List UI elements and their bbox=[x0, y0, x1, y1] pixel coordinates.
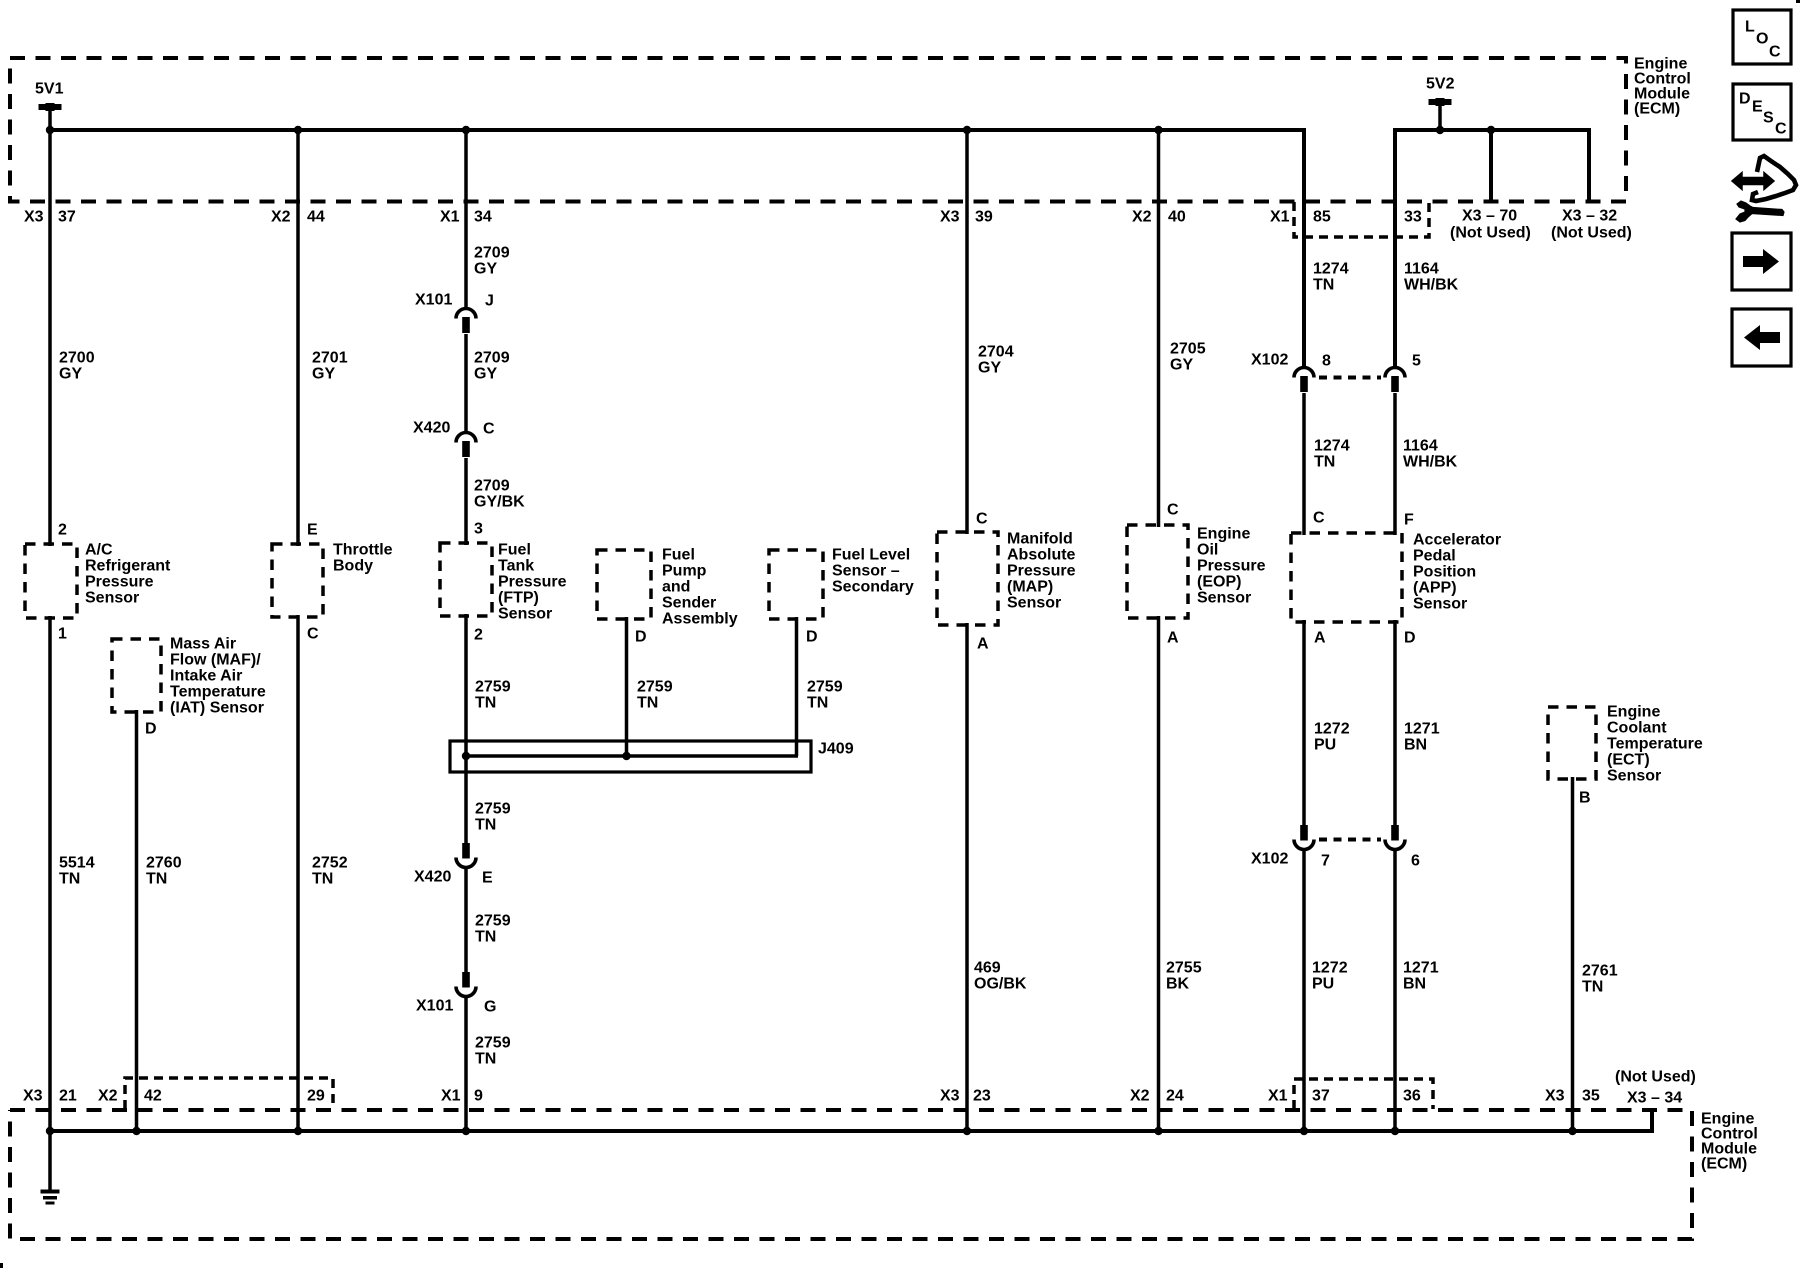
svg-text:Absolute: Absolute bbox=[1007, 547, 1076, 564]
svg-text:(Not Used): (Not Used) bbox=[1450, 225, 1531, 242]
svg-text:23: 23 bbox=[973, 1088, 991, 1105]
svg-text:42: 42 bbox=[144, 1088, 162, 1105]
svg-text:X1: X1 bbox=[1268, 1088, 1288, 1105]
svg-text:3: 3 bbox=[474, 521, 483, 538]
svg-text:40: 40 bbox=[1168, 209, 1186, 226]
svg-text:Assembly: Assembly bbox=[662, 611, 738, 628]
svg-text:2709: 2709 bbox=[474, 245, 510, 262]
svg-text:39: 39 bbox=[975, 209, 993, 226]
svg-text:Refrigerant: Refrigerant bbox=[85, 558, 171, 575]
svg-text:X101: X101 bbox=[415, 292, 452, 309]
svg-text:C: C bbox=[307, 626, 319, 643]
svg-text:(ECM): (ECM) bbox=[1634, 101, 1680, 118]
svg-text:D: D bbox=[635, 629, 647, 646]
svg-text:29: 29 bbox=[307, 1088, 325, 1105]
svg-text:OG/BK: OG/BK bbox=[974, 976, 1027, 993]
svg-text:1274: 1274 bbox=[1313, 261, 1349, 278]
svg-text:A: A bbox=[977, 636, 989, 653]
svg-text:and: and bbox=[662, 579, 690, 596]
svg-text:1164: 1164 bbox=[1404, 261, 1439, 278]
svg-text:X102: X102 bbox=[1251, 352, 1288, 369]
svg-text:1164: 1164 bbox=[1403, 438, 1438, 455]
svg-text:E: E bbox=[1752, 99, 1763, 116]
svg-text:1271: 1271 bbox=[1403, 960, 1439, 977]
svg-text:X3: X3 bbox=[940, 1088, 960, 1105]
svg-text:Sensor: Sensor bbox=[498, 606, 552, 623]
svg-text:(ECM): (ECM) bbox=[1701, 1156, 1747, 1173]
svg-text:1272: 1272 bbox=[1312, 960, 1348, 977]
svg-text:Fuel: Fuel bbox=[498, 542, 531, 559]
svg-text:GY: GY bbox=[474, 366, 497, 383]
svg-text:Sensor: Sensor bbox=[1197, 590, 1251, 607]
svg-text:C: C bbox=[1167, 502, 1179, 519]
svg-text:X3 – 70: X3 – 70 bbox=[1462, 208, 1517, 225]
svg-text:Pressure: Pressure bbox=[1007, 563, 1076, 580]
svg-text:TN: TN bbox=[475, 1051, 496, 1068]
svg-text:TN: TN bbox=[1314, 454, 1335, 471]
svg-text:D: D bbox=[1739, 91, 1751, 108]
svg-text:2701: 2701 bbox=[312, 350, 348, 367]
svg-text:(ECT): (ECT) bbox=[1607, 752, 1650, 769]
svg-text:C: C bbox=[976, 511, 988, 528]
svg-text:2709: 2709 bbox=[474, 350, 510, 367]
svg-text:X3 – 32: X3 – 32 bbox=[1562, 208, 1617, 225]
svg-text:Pedal: Pedal bbox=[1413, 548, 1456, 565]
svg-text:BN: BN bbox=[1404, 737, 1427, 754]
svg-text:2759: 2759 bbox=[475, 1035, 511, 1052]
svg-text:1274: 1274 bbox=[1314, 438, 1350, 455]
svg-text:Intake Air: Intake Air bbox=[170, 668, 242, 685]
svg-text:85: 85 bbox=[1313, 209, 1331, 226]
svg-text:37: 37 bbox=[1312, 1088, 1330, 1105]
svg-text:TN: TN bbox=[475, 929, 496, 946]
svg-text:GY: GY bbox=[474, 261, 497, 278]
svg-text:Sensor –: Sensor – bbox=[832, 563, 900, 580]
svg-text:37: 37 bbox=[58, 209, 76, 226]
svg-text:Temperature: Temperature bbox=[1607, 736, 1703, 753]
svg-text:WH/BK: WH/BK bbox=[1403, 454, 1458, 471]
svg-text:WH/BK: WH/BK bbox=[1404, 277, 1459, 294]
svg-text:BK: BK bbox=[1166, 976, 1190, 993]
svg-text:2759: 2759 bbox=[475, 679, 511, 696]
svg-text:X1: X1 bbox=[1270, 209, 1290, 226]
svg-text:(IAT) Sensor: (IAT) Sensor bbox=[170, 700, 264, 717]
svg-text:F: F bbox=[1404, 512, 1414, 529]
svg-text:5V2: 5V2 bbox=[1426, 76, 1455, 93]
svg-text:2760: 2760 bbox=[146, 855, 182, 872]
svg-text:1272: 1272 bbox=[1314, 721, 1350, 738]
svg-text:34: 34 bbox=[474, 209, 492, 226]
svg-text:7: 7 bbox=[1321, 853, 1330, 870]
svg-text:2705: 2705 bbox=[1170, 341, 1206, 358]
svg-text:Sensor: Sensor bbox=[85, 590, 139, 607]
svg-text:1: 1 bbox=[58, 626, 67, 643]
svg-text:X420: X420 bbox=[414, 869, 451, 886]
svg-text:GY: GY bbox=[978, 360, 1001, 377]
svg-text:X3: X3 bbox=[24, 209, 44, 226]
svg-text:PU: PU bbox=[1314, 737, 1336, 754]
svg-text:GY: GY bbox=[312, 366, 335, 383]
svg-text:Fuel: Fuel bbox=[662, 547, 695, 564]
svg-text:Accelerator: Accelerator bbox=[1413, 532, 1501, 549]
svg-text:GY/BK: GY/BK bbox=[474, 494, 525, 511]
svg-text:(EOP): (EOP) bbox=[1197, 574, 1241, 591]
svg-text:X420: X420 bbox=[413, 420, 450, 437]
svg-text:C: C bbox=[1775, 121, 1787, 138]
svg-text:Pressure: Pressure bbox=[85, 574, 154, 591]
svg-text:TN: TN bbox=[1313, 277, 1334, 294]
svg-text:2759: 2759 bbox=[637, 679, 673, 696]
svg-text:PU: PU bbox=[1312, 976, 1334, 993]
svg-text:2709: 2709 bbox=[474, 478, 510, 495]
svg-text:(MAP): (MAP) bbox=[1007, 579, 1053, 596]
svg-text:X2: X2 bbox=[271, 209, 291, 226]
svg-text:2759: 2759 bbox=[807, 679, 843, 696]
svg-text:Flow (MAF)/: Flow (MAF)/ bbox=[170, 652, 261, 669]
svg-text:2761: 2761 bbox=[1582, 963, 1618, 980]
svg-text:X1: X1 bbox=[440, 209, 460, 226]
svg-text:5: 5 bbox=[1412, 353, 1421, 370]
svg-text:Mass Air: Mass Air bbox=[170, 636, 236, 653]
svg-text:Manifold: Manifold bbox=[1007, 531, 1073, 548]
svg-text:TN: TN bbox=[637, 695, 658, 712]
svg-text:D: D bbox=[1404, 630, 1416, 647]
svg-text:X3 – 34: X3 – 34 bbox=[1627, 1090, 1682, 1107]
svg-text:X1: X1 bbox=[441, 1088, 461, 1105]
svg-text:TN: TN bbox=[312, 871, 333, 888]
svg-text:21: 21 bbox=[59, 1088, 77, 1105]
svg-text:469: 469 bbox=[974, 960, 1001, 977]
svg-text:X102: X102 bbox=[1251, 851, 1288, 868]
svg-text:2: 2 bbox=[474, 627, 483, 644]
svg-text:C: C bbox=[1313, 510, 1325, 527]
svg-text:G: G bbox=[484, 999, 496, 1016]
svg-text:L: L bbox=[1745, 19, 1755, 36]
svg-text:24: 24 bbox=[1166, 1088, 1184, 1105]
svg-text:5514: 5514 bbox=[59, 855, 95, 872]
svg-text:(FTP): (FTP) bbox=[498, 590, 539, 607]
svg-text:J409: J409 bbox=[818, 741, 854, 758]
svg-text:TN: TN bbox=[475, 695, 496, 712]
svg-text:44: 44 bbox=[307, 209, 325, 226]
svg-text:2752: 2752 bbox=[312, 855, 348, 872]
svg-text:Sender: Sender bbox=[662, 595, 716, 612]
svg-text:Tank: Tank bbox=[498, 558, 534, 575]
svg-text:D: D bbox=[806, 629, 818, 646]
svg-text:J: J bbox=[485, 293, 494, 310]
svg-text:B: B bbox=[1579, 790, 1591, 807]
svg-text:S: S bbox=[1763, 110, 1774, 127]
svg-text:X2: X2 bbox=[98, 1088, 118, 1105]
svg-text:C: C bbox=[1769, 44, 1781, 61]
svg-text:X3: X3 bbox=[23, 1088, 43, 1105]
svg-text:2700: 2700 bbox=[59, 350, 95, 367]
svg-text:C: C bbox=[483, 421, 495, 438]
svg-text:TN: TN bbox=[1582, 979, 1603, 996]
svg-text:TN: TN bbox=[59, 871, 80, 888]
svg-text:8: 8 bbox=[1322, 353, 1331, 370]
svg-text:BN: BN bbox=[1403, 976, 1426, 993]
svg-text:X101: X101 bbox=[416, 998, 453, 1015]
svg-text:A: A bbox=[1167, 630, 1179, 647]
svg-text:Pressure: Pressure bbox=[1197, 558, 1266, 575]
svg-text:X2: X2 bbox=[1132, 209, 1152, 226]
svg-text:O: O bbox=[1756, 31, 1768, 48]
svg-text:E: E bbox=[482, 870, 493, 887]
svg-text:Pump: Pump bbox=[662, 563, 707, 580]
svg-text:2: 2 bbox=[58, 522, 67, 539]
svg-text:E: E bbox=[307, 522, 318, 539]
svg-text:(Not Used): (Not Used) bbox=[1615, 1069, 1696, 1086]
svg-text:D: D bbox=[145, 721, 157, 738]
svg-text:TN: TN bbox=[146, 871, 167, 888]
svg-text:GY: GY bbox=[59, 366, 82, 383]
svg-text:Sensor: Sensor bbox=[1007, 595, 1061, 612]
svg-text:Temperature: Temperature bbox=[170, 684, 266, 701]
svg-text:Position: Position bbox=[1413, 564, 1476, 581]
svg-text:2759: 2759 bbox=[475, 913, 511, 930]
svg-text:2759: 2759 bbox=[475, 801, 511, 818]
svg-text:2704: 2704 bbox=[978, 344, 1014, 361]
svg-text:6: 6 bbox=[1411, 853, 1420, 870]
svg-text:Fuel Level: Fuel Level bbox=[832, 547, 910, 564]
svg-text:GY: GY bbox=[1170, 357, 1193, 374]
svg-text:X3: X3 bbox=[940, 209, 960, 226]
svg-text:(Not Used): (Not Used) bbox=[1551, 225, 1632, 242]
svg-text:TN: TN bbox=[475, 817, 496, 834]
svg-text:Secondary: Secondary bbox=[832, 579, 914, 596]
svg-text:Sensor: Sensor bbox=[1607, 768, 1661, 785]
svg-text:33: 33 bbox=[1404, 209, 1422, 226]
svg-text:1271: 1271 bbox=[1404, 721, 1440, 738]
svg-text:X3: X3 bbox=[1545, 1088, 1565, 1105]
svg-text:9: 9 bbox=[474, 1088, 483, 1105]
svg-text:36: 36 bbox=[1403, 1088, 1421, 1105]
svg-text:Body: Body bbox=[333, 558, 373, 575]
svg-text:A/C: A/C bbox=[85, 542, 113, 559]
svg-text:2755: 2755 bbox=[1166, 960, 1202, 977]
svg-text:Pressure: Pressure bbox=[498, 574, 567, 591]
svg-text:Sensor: Sensor bbox=[1413, 596, 1467, 613]
svg-text:(APP): (APP) bbox=[1413, 580, 1457, 597]
svg-text:Coolant: Coolant bbox=[1607, 720, 1667, 737]
svg-text:A: A bbox=[1314, 630, 1326, 647]
svg-text:Engine: Engine bbox=[1607, 704, 1660, 721]
svg-text:X2: X2 bbox=[1130, 1088, 1150, 1105]
svg-text:Engine: Engine bbox=[1197, 526, 1250, 543]
svg-text:35: 35 bbox=[1582, 1088, 1600, 1105]
svg-text:5V1: 5V1 bbox=[35, 81, 64, 98]
svg-text:TN: TN bbox=[807, 695, 828, 712]
svg-text:Oil: Oil bbox=[1197, 542, 1218, 559]
svg-text:Throttle: Throttle bbox=[333, 542, 393, 559]
